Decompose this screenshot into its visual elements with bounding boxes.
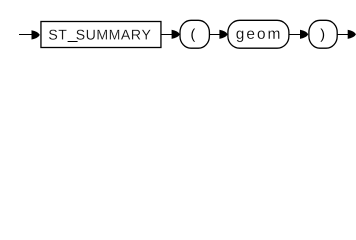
- label geom: [236, 30, 279, 42]
- label ST_SUMMARY: [49, 30, 151, 40]
- terminal oval geom: [228, 20, 289, 48]
- arrowhead into ): [300, 30, 308, 39]
- wire geom to ): [289, 34, 301, 36]
- label (: [191, 29, 195, 42]
- background: [0, 0, 356, 58]
- box ST_SUMMARY: [41, 22, 161, 48]
- label underscore of ST_SUMMARY: [68, 41, 78, 42]
- arrowhead end: [348, 30, 356, 39]
- wire end: [338, 34, 349, 36]
- railroad syntax diagram: ST_SUMMARY ( geom ): [0, 0, 356, 58]
- label ): [320, 29, 324, 42]
- terminal oval (: [180, 20, 209, 48]
- terminal oval ): [309, 20, 337, 48]
- arrowhead into (: [172, 30, 180, 39]
- arrowhead into geom: [219, 30, 227, 39]
- wire box to (: [161, 34, 173, 36]
- wire ( to geom: [210, 34, 221, 36]
- arrowhead into ST_SUMMARY box: [32, 30, 40, 39]
- wire start: [19, 34, 33, 36]
